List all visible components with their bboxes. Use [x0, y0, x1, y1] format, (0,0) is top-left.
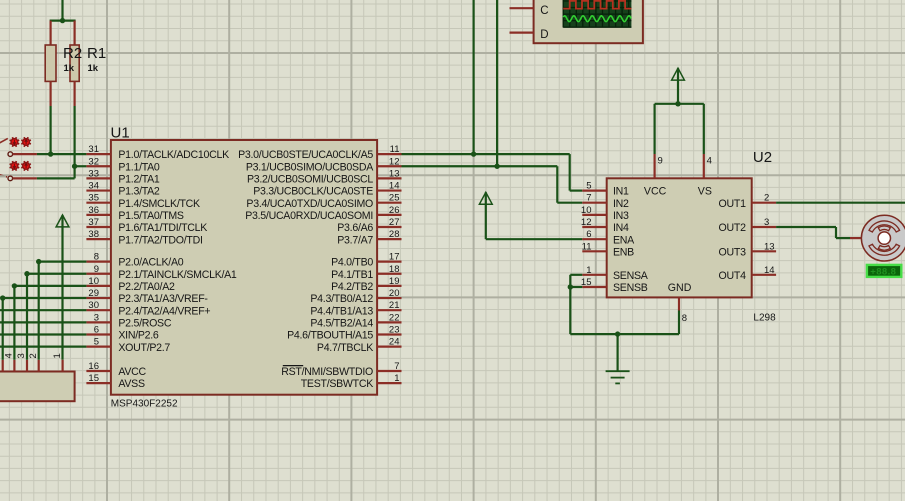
- svg-text:AVSS: AVSS: [118, 378, 145, 390]
- svg-text:ENB: ENB: [613, 246, 634, 258]
- wire: U1 P2 row to connector drop at x=38.7: [36, 259, 86, 360]
- svg-text:12: 12: [581, 217, 592, 228]
- U1 pin 6 (XIN/P2.6): [86, 325, 159, 342]
- svg-text:31: 31: [88, 144, 99, 155]
- svg-text:SENSA: SENSA: [613, 270, 649, 282]
- svg-text:26: 26: [389, 205, 400, 216]
- svg-text:8: 8: [682, 313, 687, 324]
- svg-text:P4.0/TB0: P4.0/TB0: [331, 257, 373, 269]
- U1 pin 34 (P1.3/TA2): [86, 181, 160, 198]
- U2 pin 9 (VCC top): [655, 154, 663, 178]
- U2 pin 4 (VS top): [704, 154, 712, 178]
- svg-text:IN1: IN1: [613, 186, 629, 198]
- svg-text:17: 17: [389, 252, 400, 263]
- U1 pin 18 (P4.1/TB1): [331, 264, 401, 281]
- wire: scope B channel drop to pin12 net: [496, 0, 498, 166]
- svg-text:D: D: [540, 29, 548, 41]
- U1 pin 16 (AVCC): [86, 361, 146, 378]
- wire: U1 P2 row to connector drop at x=2.7: [0, 295, 86, 359]
- U1 pin 31 (P1.0/TACLK/ADC10CLK): [86, 144, 229, 161]
- svg-text:R2: R2: [63, 45, 82, 62]
- svg-text:16: 16: [88, 361, 99, 372]
- svg-text:10: 10: [581, 205, 592, 216]
- svg-text:9: 9: [658, 156, 663, 167]
- svg-text:P1.3/TA2: P1.3/TA2: [118, 186, 160, 198]
- power terminal (VCC arrow, left): [56, 215, 69, 227]
- U1 pin 11 (P3.0/UCB0STE/UCA0CLK/A5): [238, 144, 401, 161]
- svg-text:+88.8: +88.8: [870, 267, 896, 278]
- wire: U1 pin11 to U2 IN1: [402, 154, 583, 191]
- label U2: [753, 149, 772, 166]
- label MSP430F2252: [111, 399, 178, 410]
- svg-text:10: 10: [88, 276, 99, 287]
- wire: U1 pin12 to U2 IN2: [402, 166, 583, 202]
- svg-text:P2.5/ROSC: P2.5/ROSC: [118, 317, 171, 329]
- svg-text:9: 9: [94, 264, 99, 275]
- svg-text:VS: VS: [698, 186, 712, 198]
- U1 pin 23 (P4.6/TBOUTH/A15): [287, 325, 401, 342]
- svg-text:7: 7: [586, 193, 591, 204]
- U2 pin 15 (SENSB): [581, 277, 648, 294]
- wire: U1 P2 row to left edge y=322: [0, 321, 86, 323]
- svg-text:P4.2/TB2: P4.2/TB2: [331, 281, 373, 293]
- svg-text:SENSB: SENSB: [613, 282, 648, 294]
- wire: SW1 to U1 pin31: [37, 153, 87, 155]
- connector pin 5: [2, 360, 4, 372]
- U2 pin 6 (ENA): [582, 229, 635, 246]
- svg-text:1: 1: [52, 353, 63, 358]
- svg-text:OUT4: OUT4: [719, 270, 747, 282]
- U1 pin 38 (P1.7/TA2/TDO/TDI): [86, 229, 202, 246]
- svg-text:P1.1/TA0: P1.1/TA0: [118, 161, 160, 173]
- switch SW2 (lever + pin): [0, 174, 37, 181]
- U2 pin 14 (OUT4): [719, 265, 777, 282]
- wire: junction to U1 pin32: [75, 165, 87, 167]
- U1 pin 28 (P3.7/A7): [337, 229, 401, 246]
- svg-text:IN2: IN2: [613, 198, 629, 210]
- svg-text:P4.1/TB1: P4.1/TB1: [331, 269, 373, 281]
- svg-text:1k: 1k: [64, 63, 75, 74]
- wire: OUT2 to motor: [776, 227, 850, 238]
- svg-text:11: 11: [390, 144, 400, 155]
- svg-text:R1: R1: [87, 45, 106, 62]
- svg-text:OUT3: OUT3: [719, 246, 747, 258]
- svg-text:P4.3/TB0/A12: P4.3/TB0/A12: [310, 293, 373, 305]
- svg-text:P3.1/UCB0SIMO/UCB0SDA: P3.1/UCB0SIMO/UCB0SDA: [246, 161, 374, 173]
- svg-text:38: 38: [88, 229, 99, 240]
- svg-text:P2.0/ACLK/A0: P2.0/ACLK/A0: [118, 257, 183, 269]
- svg-text:15: 15: [88, 373, 99, 384]
- label R2: [63, 45, 82, 62]
- connector pin 3: [16, 353, 27, 371]
- svg-text:P3.3/UCB0CLK/UCA0STE: P3.3/UCB0CLK/UCA0STE: [253, 186, 373, 198]
- svg-text:C: C: [540, 5, 548, 17]
- U1 pin 10 (P2.2/TA0/A2): [86, 276, 175, 293]
- svg-text:11: 11: [582, 241, 592, 252]
- node: ground-rail junction: [615, 331, 620, 336]
- U2 label VCC: [644, 186, 667, 198]
- U1 pin 14 (P3.3/UCB0CLK/UCA0STE): [253, 181, 401, 198]
- svg-text:22: 22: [389, 312, 400, 323]
- wire: OUT1 to right edge: [776, 202, 905, 204]
- svg-text:P2.1/TAINCLK/SMCLK/A1: P2.1/TAINCLK/SMCLK/A1: [118, 269, 237, 281]
- svg-text:U1: U1: [111, 125, 130, 142]
- op IC U1 MSP430F2252 body: [111, 140, 377, 395]
- wire: SW2 to R1 net corner: [37, 166, 75, 178]
- svg-text:25: 25: [389, 193, 400, 204]
- U1 pin 20 (P4.3/TB0/A12): [310, 288, 401, 305]
- svg-text:GND: GND: [668, 282, 692, 294]
- U2 label GND: [668, 282, 692, 294]
- switch SW2 actuator buttons: [10, 161, 31, 171]
- svg-text:2: 2: [764, 193, 769, 204]
- connector pin 2: [28, 353, 39, 371]
- wire: power arrow to U2 ENA: [486, 192, 583, 239]
- node: junction on VCC/VS rail: [675, 101, 680, 106]
- svg-text:32: 32: [88, 156, 99, 167]
- svg-text:3: 3: [16, 353, 27, 358]
- label U1: [111, 125, 130, 142]
- svg-text:P4.6/TBOUTH/A15: P4.6/TBOUTH/A15: [287, 330, 373, 342]
- svg-text:15: 15: [581, 277, 592, 288]
- wire: scope A channel drop to pin11 net: [473, 0, 475, 154]
- U2 pin 7 (IN2): [582, 193, 629, 210]
- switch SW1 (lever + pin): [0, 138, 37, 156]
- svg-text:4: 4: [707, 156, 712, 167]
- oscilloscope pin D: [510, 31, 534, 33]
- U2 pin 5 (IN1): [582, 181, 629, 198]
- U1 pin 30 (P2.4/TA2/A4/VREF+): [86, 300, 210, 317]
- svg-text:P2.4/TA2/A4/VREF+: P2.4/TA2/A4/VREF+: [118, 305, 210, 317]
- svg-text:VCC: VCC: [644, 186, 667, 198]
- svg-text:TEST/SBWTCK: TEST/SBWTCK: [301, 378, 373, 390]
- svg-text:IN4: IN4: [613, 222, 629, 234]
- U1 pin 17 (P4.0/TB0): [331, 252, 401, 269]
- node: R1 junction on pin32 net: [72, 164, 77, 169]
- svg-text:P3.7/A7: P3.7/A7: [337, 234, 373, 246]
- svg-text:21: 21: [389, 300, 400, 311]
- connector pin 4: [4, 353, 15, 371]
- U2 pin 2 (OUT1): [719, 193, 777, 210]
- svg-text:P3.5/UCA0RXD/UCA0SOMI: P3.5/UCA0RXD/UCA0SOMI: [245, 210, 373, 222]
- wire: power arrow down to connector pin1: [61, 215, 63, 360]
- svg-text:L298: L298: [753, 313, 776, 324]
- U1 pin 12 (P3.1/UCB0SIMO/UCB0SDA): [246, 156, 402, 173]
- svg-text:1: 1: [586, 265, 591, 276]
- svg-text:13: 13: [764, 241, 775, 252]
- value 1k (R1): [88, 63, 99, 74]
- U2 label VS: [698, 186, 712, 198]
- U1 pin 36 (P1.5/TA0/TMS): [86, 205, 184, 222]
- svg-text:1: 1: [394, 373, 399, 384]
- U1 pin 29 (P2.3/TA1/A3/VREF-): [86, 288, 208, 305]
- motor rpm display: [867, 265, 901, 278]
- svg-text:P4.7/TBCLK: P4.7/TBCLK: [317, 342, 373, 354]
- U1 pin 32 (P1.1/TA0): [86, 156, 160, 173]
- U1 pin 22 (P4.5/TB2/A14): [310, 312, 401, 329]
- svg-text:27: 27: [389, 217, 400, 228]
- node: junction pin11/scope-A: [471, 151, 476, 156]
- svg-text:RST/NMI/SBWTDIO: RST/NMI/SBWTDIO: [281, 366, 373, 378]
- U1 pin 33 (P1.2/TA1): [86, 168, 160, 185]
- node: R2 junction on pin31 net: [48, 151, 53, 156]
- svg-text:MSP430F2252: MSP430F2252: [111, 399, 178, 410]
- svg-text:13: 13: [389, 168, 400, 179]
- svg-text:24: 24: [389, 337, 400, 348]
- svg-text:5: 5: [94, 337, 99, 348]
- U1 pin 27 (P3.6/A6): [337, 217, 401, 234]
- driver IC U2 L298 body: [607, 178, 752, 297]
- wire: R1 lower lead to pin32 net: [73, 106, 75, 166]
- switch SW1 actuator buttons: [10, 137, 31, 147]
- svg-text:OUT2: OUT2: [719, 222, 747, 234]
- U1 pin 15 (AVSS): [86, 373, 145, 390]
- svg-text:20: 20: [389, 288, 400, 299]
- node: SENSB junction: [568, 284, 573, 289]
- wire: U1 P2 row to left edge y=347: [0, 346, 86, 348]
- svg-text:35: 35: [88, 193, 99, 204]
- U2 pin 13 (OUT3): [719, 241, 777, 258]
- svg-text:AVCC: AVCC: [118, 366, 146, 378]
- ground: [606, 371, 630, 383]
- U1 pin 26 (P3.5/UCA0RXD/UCA0SOMI): [245, 205, 401, 222]
- svg-text:37: 37: [88, 217, 99, 228]
- U1 pin 7 (RST/NMI/SBWTDIO): [281, 361, 401, 378]
- svg-text:P1.6/TA1/TDI/TCLK: P1.6/TA1/TDI/TCLK: [118, 222, 207, 234]
- svg-text:U2: U2: [753, 149, 772, 166]
- svg-text:P2.3/TA1/A3/VREF-: P2.3/TA1/A3/VREF-: [118, 293, 208, 305]
- svg-text:P3.0/UCB0STE/UCA0CLK/A5: P3.0/UCB0STE/UCA0CLK/A5: [238, 149, 373, 161]
- svg-text:OUT1: OUT1: [719, 198, 747, 210]
- svg-text:18: 18: [389, 264, 400, 275]
- resistor R1 (body + leads): [70, 21, 79, 106]
- svg-text:P1.7/TA2/TDO/TDI: P1.7/TA2/TDO/TDI: [118, 234, 202, 246]
- U1 pin 21 (P4.4/TB1/A13): [310, 300, 401, 317]
- svg-text:7: 7: [394, 361, 399, 372]
- svg-text:IN3: IN3: [613, 210, 629, 222]
- svg-text:P4.5/TB2/A14: P4.5/TB2/A14: [310, 317, 373, 329]
- node: junction above resistors: [60, 18, 65, 23]
- svg-text:4: 4: [4, 353, 15, 358]
- U2 pin 3 (OUT2): [719, 217, 777, 234]
- wire: SENSA/SENSB to ground rail: [570, 275, 679, 334]
- oscilloscope screen: [563, 0, 631, 28]
- svg-text:3: 3: [764, 217, 769, 228]
- svg-text:8: 8: [94, 252, 99, 263]
- U1 pin 37 (P1.6/TA1/TDI/TCLK): [86, 217, 207, 234]
- svg-text:23: 23: [389, 325, 400, 336]
- wire: U1 P2 row to connector drop at x=14.4: [12, 283, 87, 360]
- motor (DC motor, clipped right): [861, 215, 905, 261]
- svg-text:P2.2/TA0/A2: P2.2/TA0/A2: [118, 281, 175, 293]
- svg-text:1k: 1k: [88, 63, 99, 74]
- U1 pin 25 (P3.4/UCA0TXD/UCA0SIMO): [246, 193, 401, 210]
- wire: R2 lower lead to pin31 net: [49, 106, 51, 154]
- svg-text:12: 12: [389, 156, 400, 167]
- wire: power to VCC/VS rail: [655, 68, 704, 154]
- label L298: [753, 313, 776, 324]
- wire: U1 P2 row to left edge y=310: [0, 309, 86, 311]
- svg-text:P1.0/TACLK/ADC10CLK: P1.0/TACLK/ADC10CLK: [118, 149, 229, 161]
- svg-text:36: 36: [88, 205, 99, 216]
- wire: horizontal across resistor tops: [50, 20, 76, 22]
- oscilloscope pin C: [510, 7, 534, 9]
- U2 pin 8 (GND bottom): [679, 297, 687, 324]
- connector J1 (stepper header) body: [0, 372, 75, 402]
- U1 pin 5 (XOUT/P2.7): [86, 337, 170, 354]
- wire: U1 P2 row to connector drop at x=27.0: [24, 271, 86, 360]
- svg-text:P1.5/TA0/TMS: P1.5/TA0/TMS: [118, 210, 184, 222]
- U1 pin 8 (P2.0/ACLK/A0): [86, 252, 183, 269]
- U2 pin 12 (IN4): [581, 217, 629, 234]
- label R1: [87, 45, 106, 62]
- wire: rail to ground symbol: [616, 334, 618, 371]
- U1 pin 1 (TEST/SBWTCK): [301, 373, 402, 390]
- U1 pin 35 (P1.4/SMCLK/TCK): [86, 193, 200, 210]
- svg-text:6: 6: [586, 229, 591, 240]
- svg-text:5: 5: [586, 181, 591, 192]
- svg-text:34: 34: [88, 181, 99, 192]
- U1 pin 9 (P2.1/TAINCLK/SMCLK/A1): [86, 264, 237, 281]
- svg-text:P4.4/TB1/A13: P4.4/TB1/A13: [310, 305, 373, 317]
- svg-text:XOUT/P2.7: XOUT/P2.7: [118, 342, 170, 354]
- svg-text:14: 14: [764, 265, 775, 276]
- connector pin 1: [52, 353, 63, 371]
- svg-text:6: 6: [94, 325, 99, 336]
- svg-text:30: 30: [88, 300, 99, 311]
- U2 pin 10 (IN3): [581, 205, 629, 222]
- U2 pin 1 (SENSA): [582, 265, 648, 282]
- power terminal (VCC arrow, U2 supply): [672, 68, 685, 80]
- svg-text:33: 33: [88, 168, 99, 179]
- svg-text:2: 2: [28, 353, 39, 358]
- U1 pin 13 (P3.2/UCB0SOMI/UCB0SCL): [247, 168, 402, 185]
- svg-text:XIN/P2.6: XIN/P2.6: [118, 330, 159, 342]
- svg-text:14: 14: [389, 181, 400, 192]
- power terminal (VCC arrow, ENA): [479, 192, 492, 204]
- svg-text:P1.4/SMCLK/TCK: P1.4/SMCLK/TCK: [118, 198, 200, 210]
- svg-text:29: 29: [88, 288, 99, 299]
- svg-text:P1.2/TA1: P1.2/TA1: [118, 174, 160, 186]
- oscilloscope (partial, top) body: [534, 0, 643, 43]
- motor pin: [850, 237, 861, 239]
- U1 pin 24 (P4.7/TBCLK): [317, 337, 402, 354]
- wire: U1 P2 row to left edge y=334: [0, 333, 86, 335]
- node: junction pin12/scope-B: [494, 164, 499, 169]
- svg-text:3: 3: [94, 312, 99, 323]
- wire: vertical feed from top to R1/R2 junction: [61, 0, 63, 21]
- svg-text:P3.6/A6: P3.6/A6: [337, 222, 373, 234]
- svg-text:ENA: ENA: [613, 234, 635, 246]
- svg-text:19: 19: [389, 276, 400, 287]
- svg-text:P3.2/UCB0SOMI/UCB0SCL: P3.2/UCB0SOMI/UCB0SCL: [247, 174, 373, 186]
- svg-text:28: 28: [389, 229, 400, 240]
- U1 pin 3 (P2.5/ROSC): [86, 312, 171, 329]
- svg-text:P3.4/UCA0TXD/UCA0SIMO: P3.4/UCA0TXD/UCA0SIMO: [246, 198, 373, 210]
- resistor R2 (body + leads): [45, 21, 56, 106]
- U2 pin 11 (ENB): [582, 241, 635, 258]
- U1 pin 19 (P4.2/TB2): [331, 276, 401, 293]
- value 1k (R2): [64, 63, 75, 74]
